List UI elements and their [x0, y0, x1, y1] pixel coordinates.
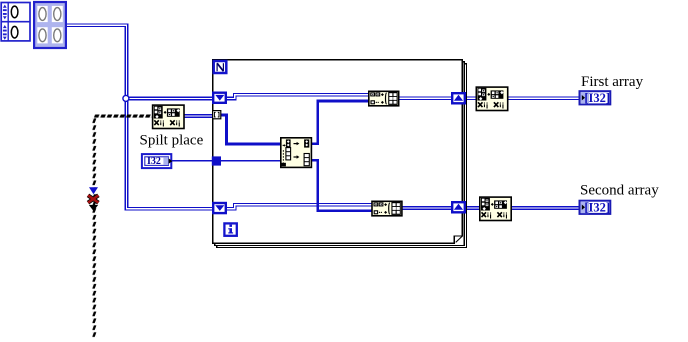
svg-text:Second array: Second array: [580, 183, 659, 199]
svg-text:I32: I32: [147, 156, 161, 167]
svg-text:[I32]: [I32]: [584, 91, 610, 105]
svg-text:[I32]: [I32]: [584, 201, 610, 215]
svg-text:Spilt place: Spilt place: [140, 133, 204, 149]
svg-text:First array: First array: [581, 74, 644, 90]
